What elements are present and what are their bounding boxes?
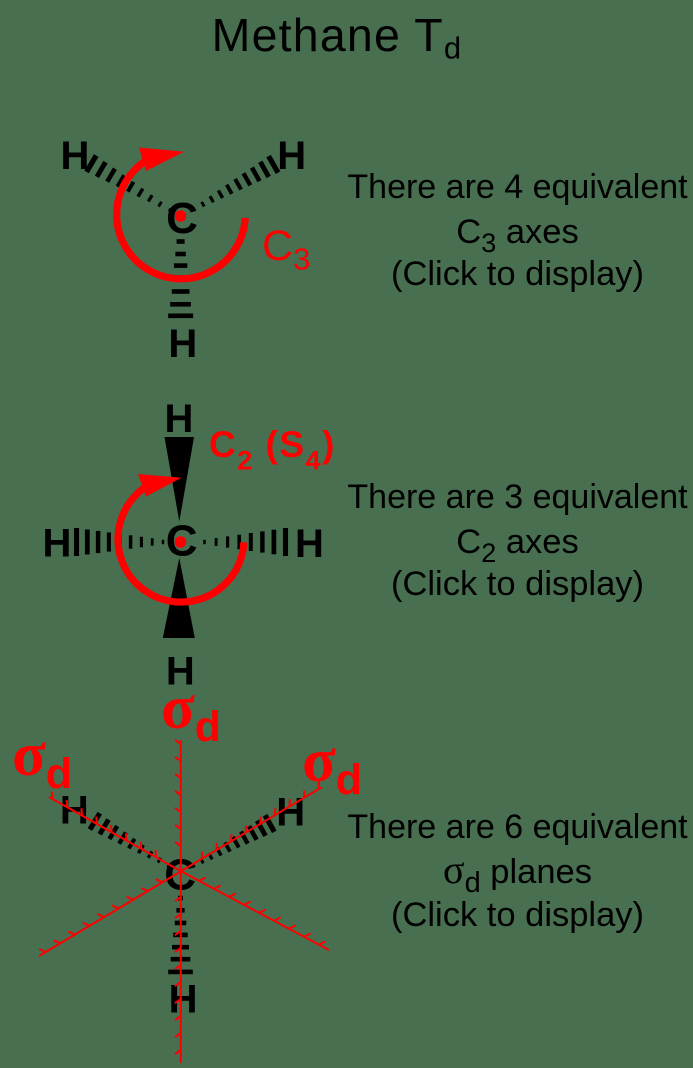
molecule 1: hashed bond C-H upper left	[87, 156, 171, 212]
molecule 1: C3 rotation arrow	[117, 148, 246, 279]
molecule 3: sigma-d plane trace upper-right	[181, 782, 323, 872]
svg-text:H: H	[43, 522, 72, 566]
svg-text:(Click to display): (Click to display)	[391, 565, 644, 603]
molecule 1: hashed bond C-H upper right	[193, 156, 278, 211]
molecule 2: C2 rotation arrow	[118, 474, 244, 602]
svg-text:H: H	[165, 397, 194, 441]
svg-text:There are 6 equivalent: There are 6 equivalent	[347, 808, 688, 846]
molecule 2: solid wedge bond C-H top	[165, 437, 195, 522]
svg-text:(Click to display): (Click to display)	[391, 255, 644, 293]
molecule 2: hashed bond C-H left	[77, 528, 164, 556]
svg-text:(Click to display): (Click to display)	[391, 896, 644, 934]
svg-text:There are 3 equivalent: There are 3 equivalent	[347, 478, 688, 516]
svg-text:H: H	[295, 522, 324, 566]
molecule 3: hashed bond C-H bottom	[168, 896, 193, 974]
svg-text:Methane Td: Methane Td	[212, 9, 463, 66]
molecule 1: hashed bond C-H bottom	[168, 239, 193, 318]
molecule 3: sigma-d plane trace upper-left	[49, 792, 181, 871]
molecule 1: axis dot	[175, 210, 187, 222]
molecule 3: sigma-d plane trace (vertical)	[175, 740, 181, 1063]
molecule 3: hashed bond C-H upper right	[193, 815, 274, 867]
molecule 3: hashed bond C-H upper left	[90, 813, 169, 867]
svg-text:H: H	[277, 134, 306, 178]
molecule 3: sigma-d plane trace lower-right	[181, 871, 330, 950]
svg-text:H: H	[168, 322, 197, 366]
svg-text:There are 4 equivalent: There are 4 equivalent	[347, 168, 688, 206]
svg-text:H: H	[169, 978, 198, 1022]
molecule 2: axis dot	[175, 536, 187, 548]
svg-text:H: H	[61, 134, 90, 178]
molecule 2: hashed bond C-H right	[205, 528, 286, 556]
molecule 3: sigma-d plane trace lower-left	[39, 872, 181, 957]
molecule 2: solid wedge bond C-H bottom	[163, 558, 195, 638]
